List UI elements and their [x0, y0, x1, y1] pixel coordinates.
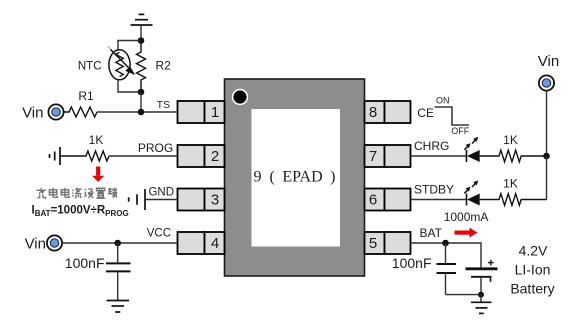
- terminal Vin (VCC row): [47, 235, 62, 250]
- wire ground to pin GND: [145, 199, 178, 201]
- svg-text:LI-Ion: LI-Ion: [515, 262, 551, 278]
- pin 8 CE box: [365, 101, 411, 123]
- pin 1 TS box: [178, 101, 225, 123]
- svg-text:100nF: 100nF: [65, 255, 105, 271]
- label charge-current setting note (Chinese text, drawn): [37, 188, 118, 198]
- wire NTC bottom to node B: [118, 80, 141, 92]
- svg-text:1K: 1K: [89, 133, 104, 147]
- wire battery bottom rail: [446, 278, 482, 295]
- thermistor NTC: [108, 46, 136, 80]
- svg-text:8: 8: [369, 104, 377, 121]
- terminal Vin (top right): [539, 75, 554, 90]
- wire R1 to pin TS: [97, 111, 178, 113]
- svg-text:Vin: Vin: [538, 53, 559, 70]
- ground GND pin (sideways): [129, 189, 145, 210]
- svg-text:4.2V: 4.2V: [519, 243, 548, 259]
- capacitor C2 100nF: [437, 243, 457, 295]
- svg-text:STDBY: STDBY: [414, 182, 454, 196]
- svg-text:CE: CE: [417, 106, 434, 120]
- capacitor C1 100nF: [106, 243, 131, 300]
- pin 6 STDBY box: [365, 189, 411, 211]
- ground below C1: [107, 301, 130, 313]
- svg-text:TS: TS: [157, 99, 170, 111]
- node BAT junction: [442, 240, 449, 247]
- wire Vin to pin VCC: [62, 242, 177, 244]
- pin 5 BAT box: [365, 232, 411, 254]
- pin 4 VCC box: [178, 232, 225, 254]
- svg-text:PROG: PROG: [138, 141, 173, 155]
- label 4.2V LI-Ion Battery: [510, 243, 554, 297]
- svg-text:IBAT=1000V÷RPROG: IBAT=1000V÷RPROG: [32, 205, 129, 219]
- svg-text:Battery: Battery: [510, 281, 554, 297]
- resistor 1K PROG: [60, 151, 109, 161]
- CE on/off level symbol: [435, 107, 470, 125]
- ground below battery: [471, 302, 492, 313]
- wire ground to node A: [140, 24, 142, 41]
- battery B1: [466, 260, 498, 282]
- svg-text:1K: 1K: [503, 177, 518, 191]
- svg-text:OFF: OFF: [451, 126, 469, 136]
- resistor 1K CHRG: [480, 150, 547, 162]
- svg-text:100nF: 100nF: [392, 255, 432, 271]
- svg-text:1: 1: [211, 104, 219, 121]
- ground top (above R2/NTC): [131, 14, 153, 25]
- wire Vin rail CHRG to STDBY: [546, 156, 548, 200]
- resistor R2: [137, 41, 146, 93]
- pin 7 CHRG box: [365, 145, 411, 167]
- svg-text:1K: 1K: [503, 133, 518, 147]
- node A junction: [138, 37, 145, 44]
- svg-text:R2: R2: [156, 59, 172, 73]
- svg-text:3: 3: [211, 192, 219, 209]
- svg-text:NTC: NTC: [78, 61, 102, 73]
- wire pin BAT to battery corner: [411, 243, 482, 268]
- svg-text:VCC: VCC: [147, 228, 171, 240]
- ground PROG (sideways): [50, 147, 61, 165]
- svg-text:1000mA: 1000mA: [444, 210, 489, 224]
- terminal Vin (TS row): [48, 104, 63, 119]
- svg-text:CHRG: CHRG: [414, 139, 449, 153]
- node TS junction: [138, 109, 145, 116]
- node VCC junction: [114, 240, 121, 247]
- node B junction: [138, 89, 145, 96]
- resistor R1: [64, 107, 97, 117]
- node battery ground junction: [478, 292, 484, 298]
- resistor 1K STDBY: [480, 194, 547, 206]
- red arrow right (charge current): [455, 228, 478, 238]
- red arrow down (program current): [92, 167, 104, 183]
- svg-text:Vin: Vin: [25, 235, 46, 252]
- svg-text:ON: ON: [436, 96, 450, 106]
- pin 3 GND box: [178, 189, 225, 211]
- led D2 STDBY: [464, 180, 479, 205]
- svg-text:BAT: BAT: [420, 226, 443, 240]
- wire pin STDBY to LED: [411, 199, 468, 201]
- wire Vin rail down to CHRG node: [546, 91, 548, 156]
- svg-text:7: 7: [369, 148, 377, 165]
- wire 1K to pin PROG: [109, 155, 178, 157]
- svg-text:6: 6: [369, 192, 377, 209]
- ic U1 body: [225, 79, 365, 276]
- wire node B down to TS wire: [140, 92, 142, 112]
- svg-text:4: 4: [211, 235, 219, 252]
- svg-text:5: 5: [369, 235, 377, 252]
- pin 2 PROG box: [178, 145, 225, 167]
- pin-1 marker dot: [233, 90, 248, 105]
- svg-text:GND: GND: [148, 186, 174, 198]
- wire junction to ground: [480, 295, 482, 302]
- svg-text:R1: R1: [78, 89, 94, 103]
- node CHRG junction: [543, 153, 550, 160]
- led D1 CHRG: [464, 137, 479, 162]
- wire node A to NTC top: [118, 41, 141, 51]
- svg-text:2: 2: [211, 148, 219, 165]
- wire pin CHRG to LED: [411, 155, 468, 157]
- svg-text:Vin: Vin: [22, 104, 43, 121]
